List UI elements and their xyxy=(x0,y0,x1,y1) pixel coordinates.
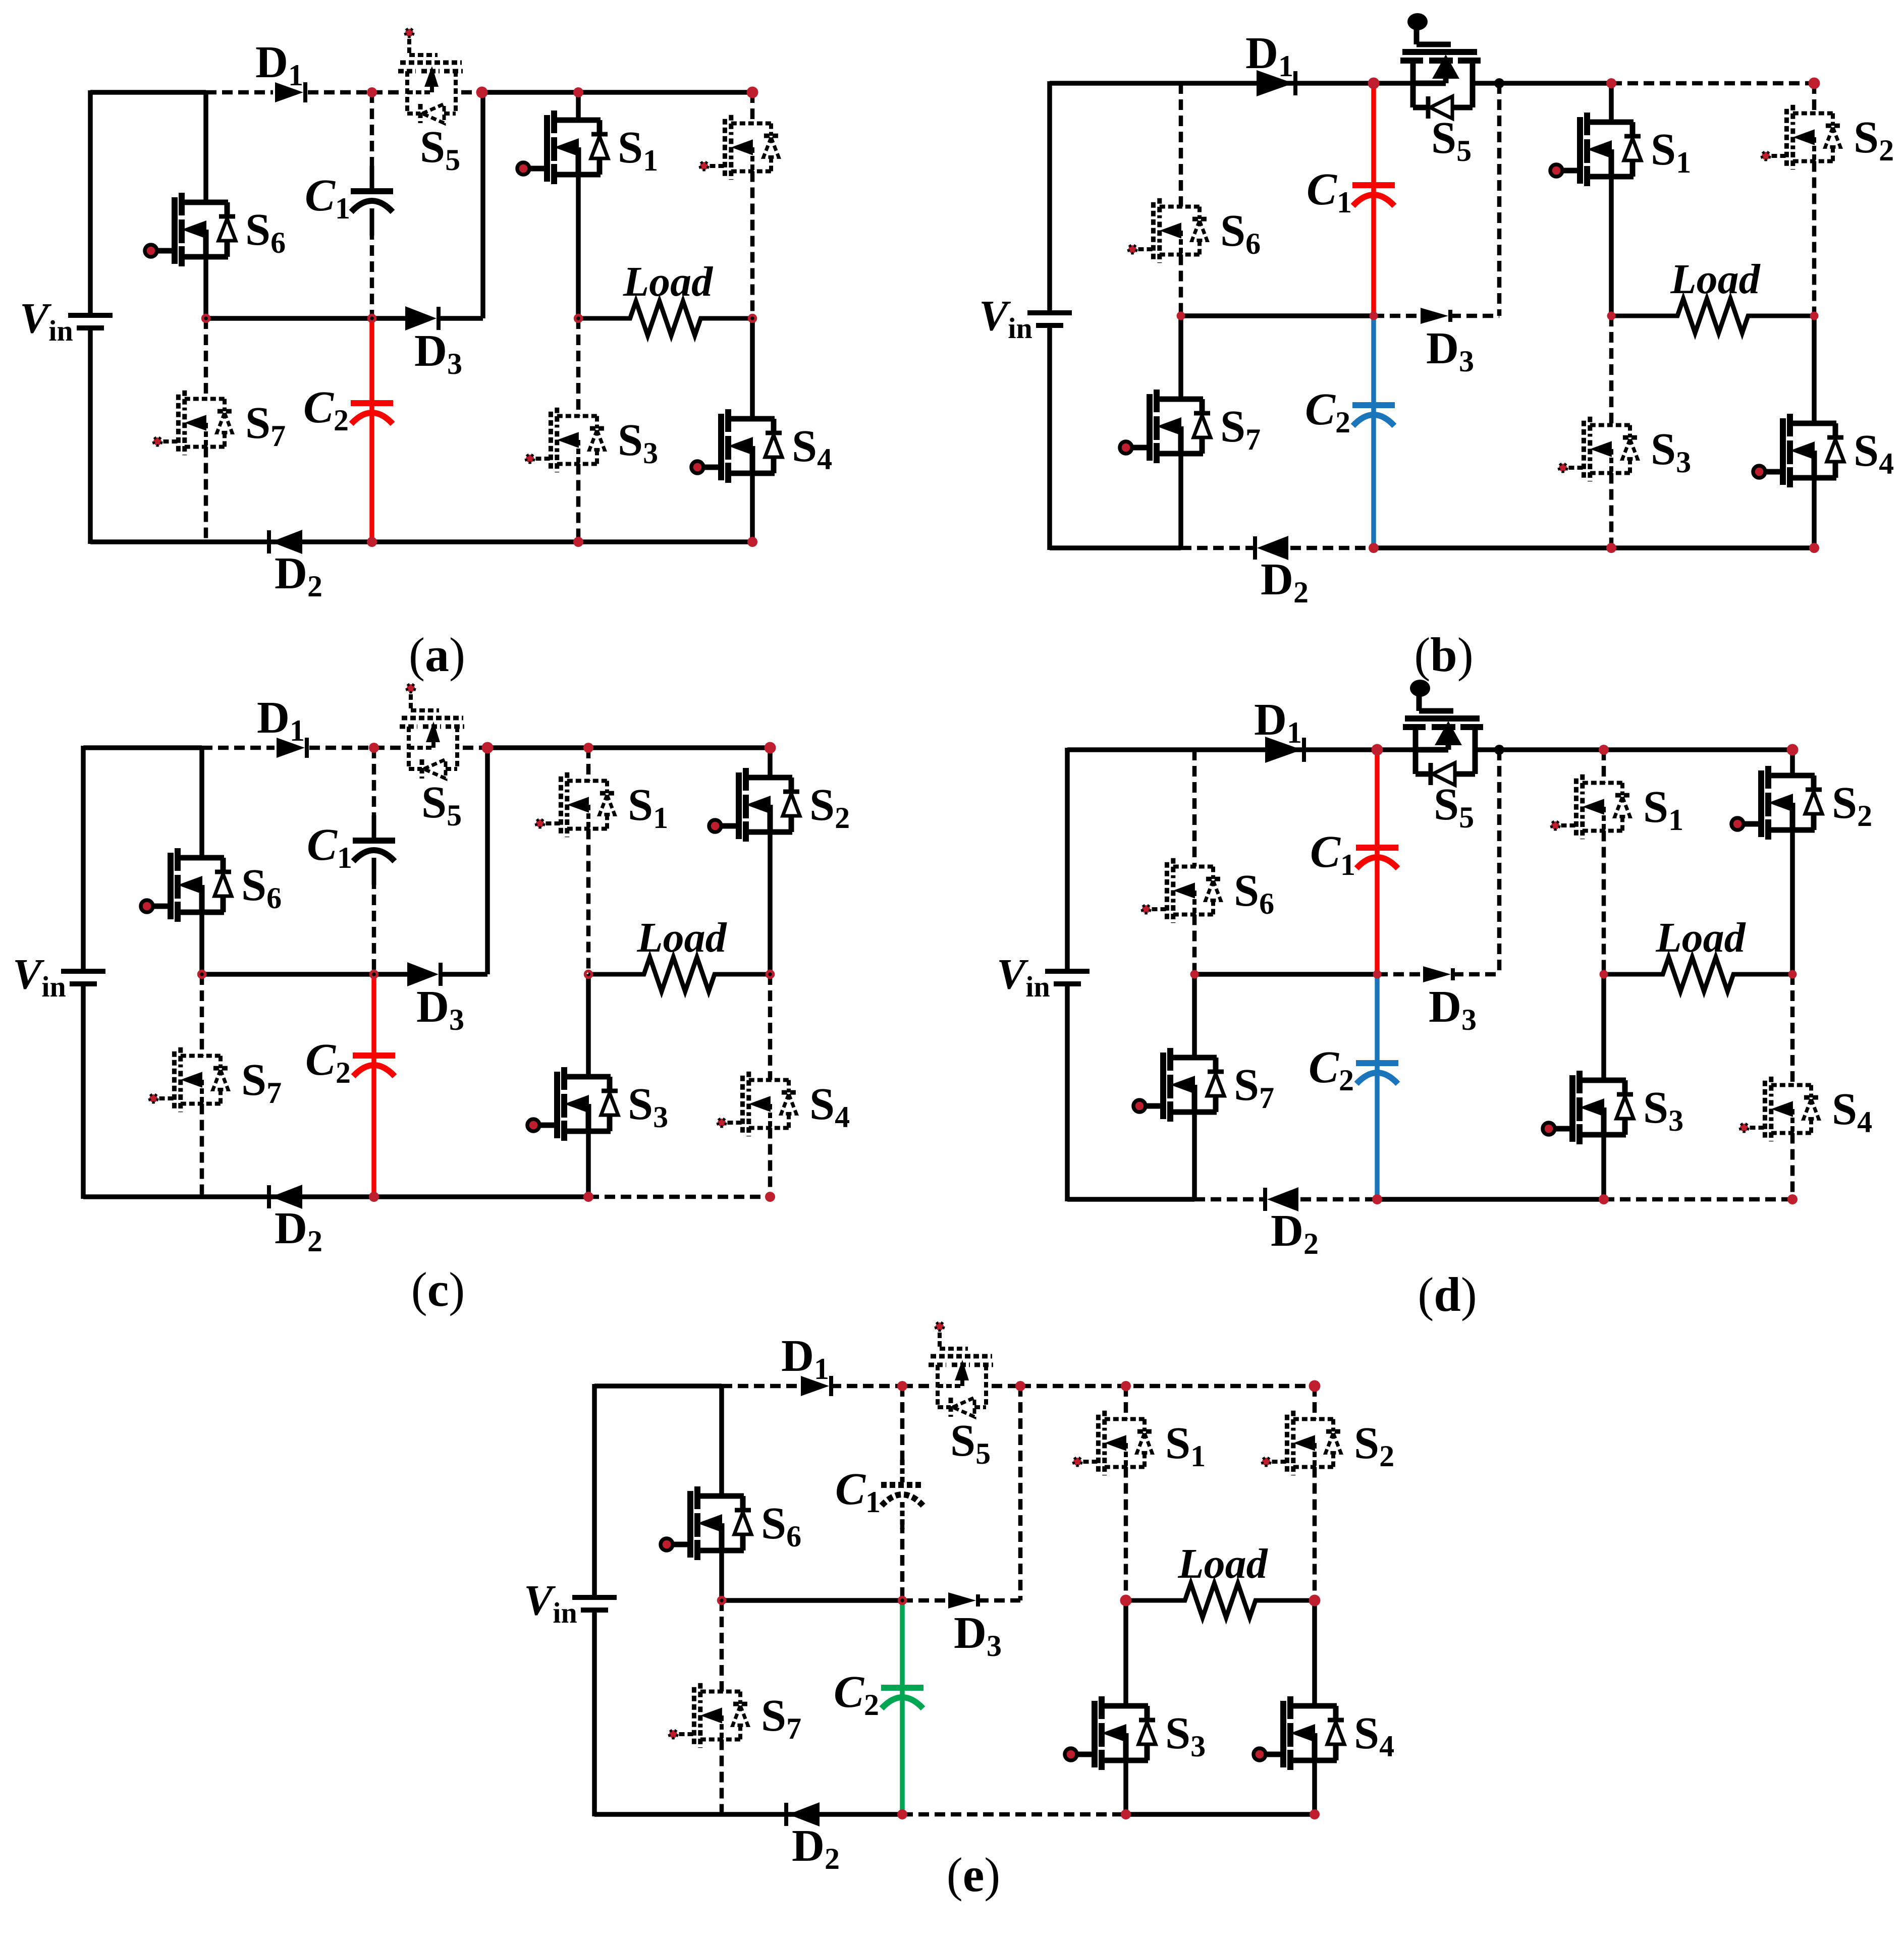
wire S7 drain lead (b) xyxy=(1178,316,1183,399)
node cap mid node (a) xyxy=(369,315,375,322)
wire S1 drain lead (c) xyxy=(586,748,591,781)
wire bottom rail seg3 (b) xyxy=(1374,545,1814,550)
wire bottom rail seg0 (e) xyxy=(594,1812,902,1817)
svg-text:(d): (d) xyxy=(1418,1267,1477,1321)
wire C2 bottom lead (d) xyxy=(1375,1063,1380,1199)
wire S2 source lead (d) xyxy=(1790,830,1795,974)
wire S7 drain lead (d) xyxy=(1192,974,1197,1058)
wire S6 source lead (e) xyxy=(719,1550,724,1600)
capacitor C2 (a) xyxy=(351,378,393,448)
transistor S3 (d) xyxy=(1543,1071,1634,1144)
capacitor C2 (c) xyxy=(353,1030,395,1100)
resistor Load (c) xyxy=(588,957,770,991)
transistor S1 (a) xyxy=(517,110,608,184)
node riser top (a) xyxy=(476,87,488,98)
node load right node (c) xyxy=(767,971,774,978)
wire S7 drain lead (a) xyxy=(204,318,208,399)
wire S6 drain lead (c) xyxy=(199,748,204,858)
diode D3 (b) xyxy=(1421,308,1450,324)
node cap mid node (b) xyxy=(1370,312,1378,320)
svg-text:Load: Load xyxy=(1655,914,1746,961)
wire mid rail seg1 (b) xyxy=(1374,314,1418,318)
diode D1 (c) xyxy=(277,738,307,758)
node load right node (d) xyxy=(1788,970,1797,979)
wire bottom rail seg1 (d) xyxy=(1194,1197,1265,1202)
wire top rail seg3 (c) xyxy=(374,746,403,750)
wire S3 drain lead (b) xyxy=(1609,316,1614,425)
wire top rail seg1 (c) xyxy=(202,746,275,750)
resistor Load (a) xyxy=(578,301,752,336)
capacitor C1 (d) xyxy=(1356,822,1398,892)
transistor S2 (d) xyxy=(1731,766,1822,840)
transistor S6 (c) xyxy=(141,848,232,922)
transistor S5 (c) xyxy=(400,684,464,779)
wire top rail seg1 (d) xyxy=(1475,747,1792,752)
transistor S2 (b) xyxy=(1762,105,1840,170)
battery Vin (b) xyxy=(1027,313,1072,325)
node C2 bottom (b) xyxy=(1369,543,1379,553)
wire mid rail seg0 (b) xyxy=(1181,313,1374,318)
wire left rail top (a) xyxy=(88,90,93,313)
transistor S3 (e) xyxy=(1065,1696,1156,1770)
node C1 top (d) xyxy=(1372,744,1383,756)
node S1 drain (b) xyxy=(1606,78,1616,88)
wire mid rail seg2 (e) xyxy=(978,1598,1020,1603)
wire S4 source lead (d) xyxy=(1790,1133,1795,1200)
node S3 bottom (d) xyxy=(1599,1194,1609,1204)
wire left rail top (e) xyxy=(592,1384,597,1595)
wire top rail seg1 (b) xyxy=(1473,81,1611,86)
wire S3 source lead (a) xyxy=(576,464,581,542)
node bottom-right corner (c) xyxy=(765,1192,775,1202)
capacitor C1 (a) xyxy=(351,166,393,236)
wire S3 drain lead (e) xyxy=(1123,1600,1128,1706)
node riser top (e) xyxy=(1015,1381,1025,1391)
wire left rail bottom (a) xyxy=(88,329,93,544)
wire S4 source lead (b) xyxy=(1812,478,1817,548)
transistor S5 (b) xyxy=(1400,13,1481,119)
wire bottom rail seg2 (b) xyxy=(1290,546,1374,550)
wire bottom rail seg2 (e) xyxy=(1126,1812,1315,1817)
wire top rail seg5 (a) xyxy=(483,90,752,95)
wire S6 drain lead (b) xyxy=(1179,83,1183,207)
wire bottom rail seg2 (d) xyxy=(1300,1197,1377,1202)
wire top rail seg2 (a) xyxy=(308,90,372,95)
wire S1 source lead (b) xyxy=(1609,177,1614,316)
capacitor C1 (b) xyxy=(1352,160,1395,230)
wire S1 source lead (d) xyxy=(1602,831,1606,975)
wire bottom rail seg0 (c) xyxy=(83,1194,588,1199)
wire S1 drain lead (d) xyxy=(1602,750,1606,783)
wire S6 source lead (b) xyxy=(1179,255,1183,316)
wire mid rail seg0 (e) xyxy=(722,1598,902,1603)
diode D1 (b) xyxy=(1257,70,1295,96)
wire S1 drain lead (b) xyxy=(1609,83,1614,122)
wire S7 source lead (d) xyxy=(1192,1112,1197,1199)
wire S2 drain lead (b) xyxy=(1812,83,1817,114)
node top-right corner (b) xyxy=(1809,78,1820,89)
transistor S7 (a) xyxy=(153,391,232,455)
wire S4 drain lead (c) xyxy=(768,974,773,1080)
wire top rail seg1 (e) xyxy=(722,1384,799,1389)
node C2 bottom (c) xyxy=(369,1192,379,1202)
wire left rail top (d) xyxy=(1065,748,1070,969)
node top-right corner (e) xyxy=(1309,1380,1321,1392)
capacitor C2 (b) xyxy=(1352,380,1395,450)
wire S6 drain lead (a) xyxy=(203,92,208,202)
capacitor C1 (c) xyxy=(353,815,395,885)
wire S7 source lead (e) xyxy=(720,1740,724,1815)
wire top rail seg2 (c) xyxy=(309,746,374,750)
transistor S3 (a) xyxy=(526,408,605,472)
wire C2 bottom lead (c) xyxy=(371,1056,376,1197)
node load right node (a) xyxy=(749,315,756,322)
node cap mid node (e) xyxy=(899,1597,906,1604)
wire C1 top lead (d) xyxy=(1375,750,1380,848)
diode D3 (e) xyxy=(948,1592,978,1609)
wire top rail seg4 (e) xyxy=(992,1384,1020,1389)
wire left rail top (c) xyxy=(81,746,86,969)
wire bottom rail seg1 (c) xyxy=(588,1195,770,1199)
wire S6 source lead (d) xyxy=(1192,915,1197,975)
diode D2 (c) xyxy=(269,1185,302,1209)
wire S2 source lead (e) xyxy=(1313,1467,1317,1601)
node S6-S7 node (d) xyxy=(1190,970,1199,979)
wire mid rail seg1 (d) xyxy=(1377,972,1421,977)
node S1-S3 node (c) xyxy=(585,971,592,978)
svg-text:Load: Load xyxy=(1177,1540,1268,1587)
node S1-S3 node (a) xyxy=(575,315,582,322)
transistor S1 (c) xyxy=(536,772,615,837)
transistor S2 (a) xyxy=(700,115,779,180)
wire mid rail seg1 (a) xyxy=(318,316,372,321)
transistor S5 (d) xyxy=(1403,680,1483,785)
node bottom-right corner (b) xyxy=(1809,543,1819,553)
diode D2 (d) xyxy=(1265,1187,1298,1211)
wire left rail top (b) xyxy=(1047,81,1052,311)
wire C2 bottom lead (e) xyxy=(900,1688,905,1814)
wire S4 drain lead (b) xyxy=(1812,316,1817,423)
resistor Load (e) xyxy=(1126,1583,1315,1618)
diode D2 (e) xyxy=(786,1802,820,1826)
battery Vin (c) xyxy=(61,971,105,984)
transistor S4 (e) xyxy=(1254,1696,1344,1770)
node S1 drain (a) xyxy=(573,87,583,97)
wire S2 drain lead (a) xyxy=(750,92,755,124)
node S6-S7 node (c) xyxy=(199,971,205,978)
capacitor C2 (e) xyxy=(881,1663,923,1732)
wire bottom rail seg1 (b) xyxy=(1181,546,1255,550)
wire S3 source lead (e) xyxy=(1123,1760,1128,1814)
wire S3 drain lead (a) xyxy=(576,318,581,416)
wire mid rail seg2 (a) xyxy=(372,316,406,321)
node S3 bottom (c) xyxy=(583,1192,593,1202)
resistor Load (d) xyxy=(1604,957,1792,991)
wire mid rail seg2 (c) xyxy=(441,972,487,977)
wire riser (a) xyxy=(480,92,485,318)
wire S1 source lead (a) xyxy=(576,175,581,318)
wire S3 source lead (c) xyxy=(586,1131,591,1197)
transistor S6 (a) xyxy=(145,193,236,266)
wire S1 drain lead (a) xyxy=(576,92,581,120)
node bottom-right corner (d) xyxy=(1787,1194,1798,1204)
wire S4 drain lead (d) xyxy=(1790,974,1795,1085)
wire top rail seg0 (e) xyxy=(594,1383,722,1389)
wire S7 source lead (c) xyxy=(200,1104,204,1197)
node S5 right node (b) xyxy=(1494,78,1504,88)
diode D2 (b) xyxy=(1255,536,1288,560)
wire C2 top lead (b) xyxy=(1371,316,1376,405)
wire C1 top lead (b) xyxy=(1371,83,1376,185)
node S6-S7 node (b) xyxy=(1177,312,1185,320)
wire S6 source lead (a) xyxy=(203,257,208,318)
wire C2 bottom lead (a) xyxy=(369,403,374,542)
wire bottom rail seg4 (d) xyxy=(1604,1197,1792,1202)
wire left rail bottom (d) xyxy=(1065,985,1070,1201)
node cap mid node (c) xyxy=(371,971,377,978)
transistor S6 (e) xyxy=(661,1486,751,1560)
transistor S7 (e) xyxy=(669,1683,748,1748)
wire mid rail seg1 (e) xyxy=(902,1598,946,1603)
transistor S4 (c) xyxy=(718,1072,796,1136)
transistor S3 (b) xyxy=(1559,417,1638,481)
wire C2 top lead (a) xyxy=(369,318,374,403)
wire left rail bottom (b) xyxy=(1047,327,1052,550)
wire S7 drain lead (e) xyxy=(720,1600,724,1692)
wire mid rail seg3 (a) xyxy=(439,316,483,321)
transistor S4 (d) xyxy=(1740,1077,1819,1141)
svg-text:(e): (e) xyxy=(947,1848,1001,1902)
wire C1 bottom lead (b) xyxy=(1371,185,1376,316)
wire top rail seg0 (d) xyxy=(1067,747,1416,752)
wire top rail seg4 (a) xyxy=(461,90,483,95)
wire C2 top lead (d) xyxy=(1375,974,1380,1063)
wire top rail seg0 (b) xyxy=(1050,81,1413,86)
node riser top (c) xyxy=(482,742,494,754)
wire riser (c) xyxy=(485,748,490,974)
transistor S7 (b) xyxy=(1120,390,1211,463)
transistor S6 (d) xyxy=(1142,858,1221,923)
wire top rail seg0 (a) xyxy=(90,90,206,95)
wire top rail seg4 (c) xyxy=(463,746,487,750)
wire S7 source lead (a) xyxy=(204,447,208,542)
diode D1 (e) xyxy=(801,1376,831,1396)
wire bottom rail seg1 (e) xyxy=(902,1812,1126,1817)
transistor S4 (a) xyxy=(691,409,782,483)
wire C1 top lead (a) xyxy=(370,92,374,171)
diode D3 (d) xyxy=(1423,966,1453,982)
transistor S4 (b) xyxy=(1753,414,1844,487)
transistor S7 (d) xyxy=(1133,1048,1224,1122)
wire top rail seg2 (e) xyxy=(831,1384,902,1389)
transistor S5 (a) xyxy=(398,29,463,123)
node C2 bottom (d) xyxy=(1372,1194,1382,1204)
wire bottom rail seg3 (d) xyxy=(1377,1197,1604,1202)
wire S1 source lead (c) xyxy=(586,829,591,975)
svg-text:(c): (c) xyxy=(411,1262,465,1316)
wire S2 drain lead (e) xyxy=(1313,1386,1317,1419)
node S1-S3 node (d) xyxy=(1600,970,1608,979)
wire bottom rail seg0 (d) xyxy=(1067,1197,1194,1202)
node load right node (b) xyxy=(1810,312,1819,320)
battery Vin (a) xyxy=(68,315,113,328)
wire left rail bottom (c) xyxy=(81,985,86,1199)
node C1 top (b) xyxy=(1368,78,1380,89)
diode D2 (a) xyxy=(269,530,302,554)
node cap mid node (d) xyxy=(1373,970,1382,979)
diode D3 (c) xyxy=(407,962,441,986)
node C2 bottom (e) xyxy=(897,1809,907,1819)
wire C1 bottom lead (c) xyxy=(372,878,376,974)
node top-right corner (a) xyxy=(747,87,758,98)
node top-right corner (d) xyxy=(1787,744,1799,756)
wire S4 source lead (c) xyxy=(768,1128,773,1197)
wire C1 bottom lead (e) xyxy=(900,1523,905,1600)
wire mid rail seg0 (c) xyxy=(202,972,374,977)
transistor S6 (b) xyxy=(1128,198,1207,263)
battery Vin (d) xyxy=(1045,971,1090,984)
wire C2 bottom lead (b) xyxy=(1371,405,1376,548)
wire S2 source lead (b) xyxy=(1812,161,1817,316)
node S1 drain (d) xyxy=(1599,745,1609,755)
wire mid rail seg0 (d) xyxy=(1194,972,1377,977)
node C2 bottom (a) xyxy=(367,537,377,547)
wire S6 source lead (c) xyxy=(199,912,204,974)
node S1-S3 node (b) xyxy=(1607,312,1616,320)
wire C2 top lead (e) xyxy=(900,1600,905,1688)
wire S2 source lead (a) xyxy=(750,172,755,319)
wire mid rail seg2 (b) xyxy=(1450,314,1499,318)
wire S6 drain lead (d) xyxy=(1192,750,1197,867)
wire riser (e) xyxy=(1018,1386,1023,1600)
transistor S1 (b) xyxy=(1550,113,1641,186)
wire S4 source lead (a) xyxy=(750,473,755,542)
wire C1 bottom lead (a) xyxy=(370,229,374,318)
transistor S5 (e) xyxy=(929,1322,993,1417)
wire S7 source lead (b) xyxy=(1178,454,1183,548)
wire S7 drain lead (c) xyxy=(200,974,204,1056)
svg-text:(b): (b) xyxy=(1414,628,1473,682)
node S6-S7 node (a) xyxy=(203,315,209,322)
wire S1 source lead (e) xyxy=(1124,1467,1128,1601)
wire top rail seg3 (a) xyxy=(372,90,402,95)
wire top rail seg5 (c) xyxy=(487,745,770,750)
wire top rail seg0 (c) xyxy=(83,745,202,750)
wire S3 drain lead (d) xyxy=(1601,974,1606,1080)
node load right node (e) xyxy=(1309,1595,1321,1606)
node S3 bottom (a) xyxy=(573,537,583,547)
wire S2 drain lead (d) xyxy=(1790,750,1795,775)
wire C1 top lead (e) xyxy=(900,1386,905,1465)
transistor S2 (e) xyxy=(1262,1411,1341,1475)
svg-text:(a): (a) xyxy=(409,628,465,682)
node C1 top (e) xyxy=(897,1381,907,1391)
wire C1 top lead (c) xyxy=(372,748,376,820)
wire C1 bottom lead (d) xyxy=(1375,848,1380,974)
node S1 drain (c) xyxy=(583,743,593,753)
wire S4 drain lead (a) xyxy=(750,318,755,419)
wire bottom rail seg0 (b) xyxy=(1050,545,1181,550)
node S3 bottom (e) xyxy=(1121,1809,1131,1819)
wire S4 drain lead (e) xyxy=(1312,1600,1317,1706)
wire S2 source lead (c) xyxy=(768,832,773,974)
wire S3 drain lead (c) xyxy=(586,974,591,1077)
wire mid rail seg1 (c) xyxy=(374,972,408,977)
node load left node (e) xyxy=(1120,1595,1132,1606)
node C1 top (a) xyxy=(367,87,377,97)
capacitor C2 (d) xyxy=(1356,1038,1398,1107)
svg-text:Load: Load xyxy=(623,258,714,305)
node S5 right node (d) xyxy=(1494,745,1504,755)
wire S3 source lead (b) xyxy=(1609,473,1614,548)
wire top rail seg5 (e) xyxy=(1020,1384,1315,1389)
diode D1 (a) xyxy=(275,82,305,102)
node S1 drain (e) xyxy=(1121,1381,1131,1391)
wire S2 drain lead (c) xyxy=(768,748,773,778)
transistor S3 (c) xyxy=(527,1067,618,1141)
wire S1 drain lead (e) xyxy=(1124,1386,1128,1419)
wire C2 top lead (c) xyxy=(371,974,376,1056)
wire bottom rail seg0 (a) xyxy=(90,539,752,544)
wire mid rail seg0 (a) xyxy=(206,316,318,321)
wire mid rail seg2 (d) xyxy=(1453,972,1499,977)
wire top rail seg3 (e) xyxy=(902,1384,932,1389)
node C1 top (c) xyxy=(369,743,379,753)
diode D3 (a) xyxy=(405,306,439,330)
battery Vin (e) xyxy=(572,1597,617,1610)
capacitor C1 (e) xyxy=(881,1460,923,1529)
svg-text:Load: Load xyxy=(636,914,727,961)
transistor S7 (c) xyxy=(149,1047,228,1112)
node top-right corner (c) xyxy=(765,742,776,754)
wire S6 drain lead (e) xyxy=(719,1386,724,1496)
wire riser (d) xyxy=(1497,750,1502,974)
wire S4 source lead (e) xyxy=(1312,1760,1317,1814)
wire top rail seg1 (a) xyxy=(206,90,273,95)
wire riser (b) xyxy=(1497,83,1502,316)
node bottom-right corner (a) xyxy=(747,537,757,547)
resistor Load (b) xyxy=(1611,299,1814,333)
node S3 bottom (b) xyxy=(1606,543,1616,553)
transistor S1 (e) xyxy=(1073,1411,1152,1475)
svg-text:Load: Load xyxy=(1670,256,1761,303)
transistor S2 (c) xyxy=(709,768,800,842)
transistor S1 (d) xyxy=(1551,774,1630,839)
wire top rail seg2 (b) xyxy=(1611,81,1814,86)
node bottom-right corner (e) xyxy=(1310,1809,1320,1819)
diode D1 (d) xyxy=(1265,737,1304,763)
wire left rail bottom (e) xyxy=(592,1612,597,1816)
wire S3 source lead (d) xyxy=(1601,1135,1606,1199)
node S6-S7 node (e) xyxy=(719,1597,725,1604)
